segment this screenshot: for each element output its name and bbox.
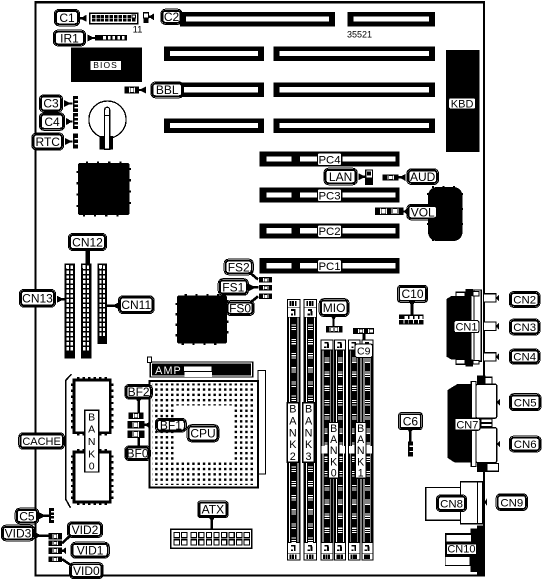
PCI slot PC4	[260, 152, 400, 167]
svg-text:BF0: BF0	[127, 447, 149, 461]
svg-text:BBL: BBL	[156, 83, 179, 97]
ISA slot row 3 right	[274, 83, 435, 98]
connector CN10 block	[477, 525, 484, 574]
jumper BBL header	[125, 87, 140, 94]
label VOL	[404, 208, 407, 215]
label BF1	[145, 421, 150, 428]
label C1	[80, 15, 87, 22]
jumper C3	[64, 100, 71, 107]
PCI slot PC2	[260, 223, 400, 238]
svg-text:11: 11	[133, 24, 143, 35]
svg-text:CN4: CN4	[513, 352, 536, 364]
label IR1	[53, 30, 85, 46]
chipset chip U1	[78, 163, 130, 215]
svg-text:K: K	[88, 448, 95, 460]
ISA slot row 4 right	[274, 118, 435, 133]
DIMM socket BANK2	[287, 299, 301, 561]
label ATX	[198, 501, 228, 517]
label PC3	[317, 189, 341, 202]
ISA slot row 1 right	[348, 12, 435, 27]
svg-text:3: 3	[306, 451, 312, 463]
svg-text:IR1: IR1	[60, 31, 79, 45]
svg-text:CN6: CN6	[514, 439, 537, 451]
SIMM socket B	[81, 264, 91, 359]
BIOS chip	[71, 48, 142, 82]
keyboard connector KBD block	[446, 50, 480, 152]
label C10	[398, 286, 428, 303]
label RTC	[32, 133, 64, 150]
svg-text:K: K	[305, 439, 313, 451]
svg-text:CN11: CN11	[121, 298, 151, 312]
label FS1	[218, 279, 248, 296]
svg-text:1: 1	[358, 468, 364, 480]
cache bracket	[66, 374, 72, 508]
label FS0	[226, 301, 254, 316]
svg-text:CACHE: CACHE	[22, 436, 61, 448]
svg-text:CN13: CN13	[22, 292, 53, 306]
ISA slot row 4 left	[164, 118, 264, 133]
label PC1	[317, 260, 341, 273]
svg-text:RTC: RTC	[36, 135, 61, 149]
port CN5 D-sub	[476, 384, 497, 418]
label BBL	[139, 87, 146, 94]
svg-text:PC1: PC1	[318, 261, 340, 273]
label C6	[399, 413, 423, 430]
cache SRAM chip 1	[74, 380, 110, 433]
CPU socket	[150, 381, 258, 488]
svg-text:KBD: KBD	[451, 98, 474, 110]
jumper C4	[66, 118, 73, 125]
jumper C6	[408, 441, 413, 456]
label KBD	[449, 98, 476, 109]
svg-text:A: A	[305, 415, 313, 427]
PCI slot PC1	[260, 258, 400, 273]
svg-text:AUD: AUD	[410, 170, 436, 184]
audio chip heatsink	[428, 187, 463, 241]
svg-text:N: N	[305, 427, 313, 439]
svg-text:PC4: PC4	[318, 154, 340, 166]
ISA slot row 3 left	[178, 83, 265, 98]
socket lever bar	[258, 371, 266, 475]
connector CN1 body	[446, 296, 470, 360]
svg-text:N: N	[88, 436, 96, 448]
svg-text:C1: C1	[59, 11, 75, 25]
svg-text:FS1: FS1	[222, 280, 244, 294]
jumper FS0	[250, 296, 258, 302]
label VID2	[67, 522, 102, 538]
jumper C9 header	[353, 328, 374, 334]
label BANK3 vertical	[303, 403, 314, 463]
label PC2	[317, 225, 341, 238]
DIMM socket BANK0 right	[334, 339, 346, 560]
svg-text:C6: C6	[403, 414, 419, 428]
jumper AUD header	[383, 174, 399, 180]
svg-text:35521: 35521	[347, 30, 372, 40]
label BF2	[125, 384, 153, 399]
I/O controller chip U2	[177, 296, 227, 344]
svg-text:CN10: CN10	[447, 544, 475, 556]
svg-text:B: B	[289, 403, 296, 415]
label BF0	[125, 446, 151, 461]
svg-text:CN12: CN12	[72, 235, 103, 249]
jumper RTC	[65, 138, 72, 145]
label BANK2 vertical	[287, 403, 298, 463]
connector C1 header	[90, 13, 138, 24]
jumper BF2	[129, 412, 144, 418]
DIMM socket BANK1 left	[348, 339, 360, 560]
port CN3	[484, 322, 496, 330]
label C3	[39, 95, 62, 112]
svg-text:ATX: ATX	[202, 503, 224, 517]
label CN11	[112, 302, 119, 309]
jumper FS1	[249, 284, 256, 291]
label CN8	[436, 495, 466, 512]
label AUD	[399, 174, 406, 181]
svg-text:CN9: CN9	[500, 497, 523, 509]
connector C10 header	[399, 315, 424, 325]
ISA slot row 2 right	[274, 46, 435, 61]
port CN2	[484, 294, 496, 302]
label CN5	[497, 399, 500, 406]
label BANK0 vertical dimm	[321, 446, 327, 454]
svg-text:N: N	[289, 427, 297, 439]
svg-text:AMP: AMP	[155, 365, 182, 377]
label CN10	[446, 544, 476, 555]
label PC4	[317, 153, 341, 166]
svg-text:B: B	[88, 411, 95, 423]
svg-text:VID1: VID1	[77, 543, 104, 557]
jumper MIO header	[330, 315, 337, 321]
SIMM socket CN11/C	[98, 264, 107, 344]
label CN4	[496, 353, 499, 360]
label CN3	[496, 323, 499, 330]
svg-text:CN5: CN5	[514, 397, 537, 409]
battery	[89, 101, 126, 138]
svg-text:VID0: VID0	[73, 564, 100, 578]
SIMM socket CN12/A	[65, 264, 75, 359]
ISA slot row 2 left	[164, 46, 264, 61]
svg-text:CN8: CN8	[440, 498, 463, 510]
svg-text:VID2: VID2	[72, 523, 99, 537]
svg-text:A: A	[88, 424, 95, 436]
svg-text:BIOS: BIOS	[93, 60, 118, 70]
label CN12	[68, 233, 106, 250]
svg-text:CN2: CN2	[513, 295, 536, 307]
svg-text:C3: C3	[43, 97, 59, 111]
label FS2	[224, 259, 253, 275]
jumper LAN header	[359, 173, 366, 180]
svg-text:B: B	[305, 403, 312, 415]
connector CN8 USB stack	[426, 488, 461, 521]
svg-text:LAN: LAN	[329, 170, 352, 184]
jumper near C2	[143, 13, 148, 18]
label VID3	[1, 525, 34, 541]
svg-text:PC3: PC3	[318, 190, 340, 202]
svg-text:K: K	[289, 439, 297, 451]
wire CN12 pointer	[86, 251, 90, 265]
svg-text:FS2: FS2	[228, 260, 250, 274]
label C9	[355, 344, 373, 358]
DIMM socket BANK0 left	[321, 339, 334, 560]
label BANK1 vertical dimm	[349, 446, 355, 454]
svg-text:C4: C4	[44, 115, 60, 129]
label CN6	[497, 441, 500, 448]
svg-text:C5: C5	[19, 509, 35, 523]
label C4	[39, 113, 64, 130]
connector ATX power	[171, 529, 252, 548]
svg-text:CN3: CN3	[513, 322, 536, 334]
svg-text:BF2: BF2	[128, 385, 150, 399]
jumper block VID rows	[48, 533, 62, 539]
svg-text:A: A	[289, 415, 297, 427]
connector IR1 header	[88, 35, 95, 42]
PCI slot PC3	[260, 188, 400, 203]
label CN1	[454, 321, 479, 333]
svg-text:0: 0	[89, 461, 95, 473]
jumper FS2	[250, 273, 258, 280]
port CN4	[484, 353, 496, 361]
svg-text:2: 2	[290, 451, 296, 463]
svg-text:C9: C9	[357, 346, 371, 358]
svg-text:C2: C2	[164, 10, 180, 24]
label C2	[149, 13, 154, 20]
svg-text:CN1: CN1	[455, 322, 477, 334]
svg-text:FS0: FS0	[229, 301, 251, 315]
jumper BF0	[127, 431, 144, 438]
label C5	[15, 508, 39, 524]
jumper C5	[39, 512, 46, 519]
label CACHE	[19, 433, 65, 449]
label CN2	[496, 295, 499, 302]
svg-text:PC2: PC2	[318, 226, 340, 238]
svg-text:CN7: CN7	[456, 419, 478, 431]
jumper BF1	[127, 421, 144, 428]
label VID1	[71, 542, 109, 558]
label CN13	[57, 296, 64, 303]
DIMM socket BANK3	[304, 299, 317, 561]
svg-text:MIO: MIO	[323, 301, 346, 315]
label LAN	[324, 168, 357, 185]
ISA slot row 1 left	[180, 12, 335, 27]
label CN7	[455, 418, 480, 430]
port CN6 D-sub	[476, 428, 497, 463]
svg-text:CPU: CPU	[190, 427, 215, 441]
svg-text:VID3: VID3	[5, 526, 32, 540]
jumper VOL header	[375, 208, 404, 215]
label CPU	[187, 425, 219, 442]
label CN9	[485, 498, 488, 506]
svg-text:VOL: VOL	[411, 205, 435, 219]
svg-text:0: 0	[331, 468, 337, 480]
label VID0	[70, 563, 104, 579]
DIMM socket BANK1 right	[362, 339, 374, 560]
svg-text:BF1: BF1	[160, 419, 182, 433]
svg-text:C10: C10	[401, 287, 423, 301]
voltage regulator AMP bar	[150, 362, 254, 378]
connector CN7 body	[448, 384, 472, 463]
cache SRAM chip 2	[74, 452, 110, 502]
label BANK0 cache	[85, 410, 99, 472]
label MIO	[319, 299, 349, 317]
